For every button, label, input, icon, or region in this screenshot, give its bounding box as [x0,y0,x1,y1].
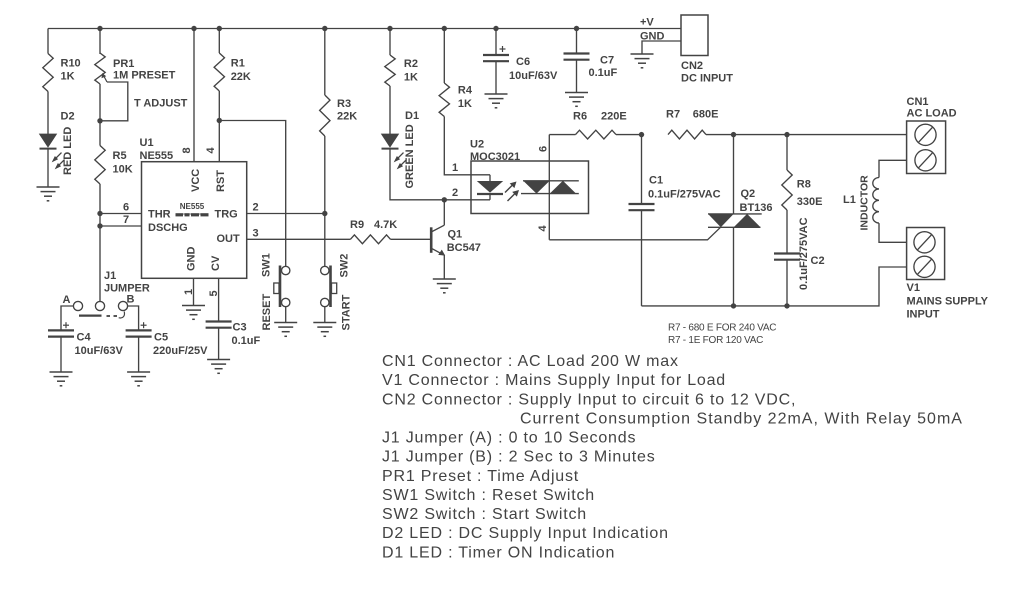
switch SW2 actuator [331,266,337,308]
ground below Q1 [433,279,456,293]
svg-text:C2: C2 [811,255,825,267]
switch SW1 actuator [274,266,280,308]
jumper J1 pin A [73,301,82,310]
junction rail-pin8 [191,26,196,31]
svg-text:R7: R7 [666,109,680,121]
svg-text:CN1: CN1 [907,96,929,108]
svg-text:CV: CV [210,255,222,271]
wire SW1 to ground [285,307,287,323]
svg-text:R3: R3 [337,98,351,110]
preset PR1 wiper arm [100,73,128,121]
svg-text:CN2 Connector : Supply Input t: CN2 Connector : Supply Input to circuit … [382,391,796,408]
wire +V top rail [48,28,681,30]
svg-text:D1: D1 [405,110,419,122]
svg-text:680E: 680E [693,109,719,121]
wire rail to PR1 [99,29,101,55]
wire J1 A to C4 [61,306,73,330]
svg-text:R4: R4 [458,85,473,97]
svg-text:DC INPUT: DC INPUT [681,73,733,85]
svg-text:4: 4 [205,147,217,154]
svg-text:U2: U2 [470,139,484,151]
svg-text:22K: 22K [337,111,357,123]
svg-text:U1: U1 [140,137,154,149]
wire D1 to pin2 node [390,150,444,200]
resistor R3 [320,95,330,136]
wire TRG pin2 [247,213,325,215]
wire node to Q2 [733,135,735,214]
svg-text:3: 3 [253,227,259,239]
svg-text:330E: 330E [797,196,823,208]
svg-text:NE555: NE555 [180,202,205,211]
wire R5 to J1 jumper [99,184,101,301]
svg-text:NE555: NE555 [140,150,174,162]
svg-text:R7 - 1E FOR 120 VAC: R7 - 1E FOR 120 VAC [668,335,763,346]
junction Q2-bottom rail [731,303,736,308]
junction rail-PR1 [97,26,102,31]
ground below SW2 [313,323,336,337]
wire rail to R4 [443,29,445,84]
svg-text:0.1uF: 0.1uF [232,335,261,347]
svg-text:VCC: VCC [190,169,202,192]
wire pin2 node to MOC pin2 [444,199,490,201]
svg-text:1: 1 [183,289,195,295]
jumper J1 hook at B [119,312,125,319]
svg-text:C3: C3 [233,322,247,334]
svg-text:5: 5 [208,290,220,296]
terminal CN1-2 screw slot [919,153,933,168]
svg-text:220E: 220E [601,111,627,123]
resistor R9 [350,235,390,244]
wire C1 to bottom rail [641,210,643,306]
svg-text:T ADJUST: T ADJUST [134,98,188,110]
terminal V1-2 [914,256,935,277]
ground below CN2 [631,54,654,68]
inductor L1 coil [873,178,879,224]
svg-text:0.1uF: 0.1uF [589,67,618,79]
svg-text:10K: 10K [113,164,133,176]
wire pin4 node to RST pin4 [218,121,220,162]
wire R9 to Q1 base [391,238,432,240]
terminal CN1-1 screw slot [919,127,933,142]
wire THR pin6 [100,213,142,215]
jumper J1 shunt A-center [79,315,102,317]
svg-text:RESET: RESET [261,294,273,331]
connector CN2 body [681,15,708,56]
ground below C6 [485,94,508,108]
svg-text:C7: C7 [600,55,614,67]
transistor Q1 BC547 [431,225,445,255]
svg-text:+V: +V [640,17,654,29]
junction rail-R4 [442,26,447,31]
svg-text:2: 2 [452,187,458,199]
svg-text:22K: 22K [231,71,251,83]
svg-text:CN2: CN2 [681,60,703,72]
wire C7 to ground [576,60,578,93]
switch SW2 contact bottom [321,298,329,306]
wire rail to R2 [389,29,391,56]
LED D1 [382,134,407,169]
svg-text:R2: R2 [404,58,418,70]
wire rail to VCC pin8 [193,29,195,162]
svg-text:C6: C6 [516,56,530,68]
capacitor C7 [564,54,590,60]
resistor R4 [439,83,449,117]
capacitor C4 [48,330,74,336]
svg-text:R9: R9 [350,219,364,231]
preset PR1 [95,53,105,84]
wire SW2 to ground [324,307,326,323]
wire rail to R3 [324,29,326,96]
resistor R2 [385,55,395,86]
junction rail-R2 [387,26,392,31]
wire C5 to ground [138,337,140,372]
svg-text:D2: D2 [61,111,75,123]
junction R7-Q2 [731,132,736,137]
wire rail to C7 [576,29,578,54]
switch SW2 contact top [321,266,329,274]
svg-text:THR: THR [148,209,171,221]
svg-text:D1 LED : Timer ON Indication: D1 LED : Timer ON Indication [382,544,615,561]
svg-text:C5: C5 [154,332,168,344]
svg-text:DSCHG: DSCHG [148,222,188,234]
wire J1 B to C5 [128,306,139,330]
svg-text:R6: R6 [573,111,587,123]
svg-text:1K: 1K [458,98,472,110]
junction THR node [97,211,102,216]
wire rail to R1 [218,29,220,54]
plus sign C6 [500,46,506,52]
svg-text:0.1uF/275VAC: 0.1uF/275VAC [798,217,810,290]
triac Q2 BT136 [708,214,762,227]
svg-text:1M PRESET: 1M PRESET [113,70,176,82]
junction rail-C6 [493,26,498,31]
opto light arrows inside U2 [505,182,519,202]
switch SW1 contact bottom [282,298,290,306]
LED D2 [40,134,65,169]
jumper J1 dashes [107,315,118,317]
svg-text:MAINS SUPPLY: MAINS SUPPLY [907,296,989,308]
svg-text:1K: 1K [61,71,75,83]
junction C2-bottom rail [784,303,789,308]
wire R2 to D1 [389,86,391,134]
svg-text:10uF/63V: 10uF/63V [509,70,558,82]
svg-text:C4: C4 [77,332,92,344]
svg-text:J1: J1 [104,270,116,282]
svg-text:6: 6 [123,202,129,214]
resistor R5 [95,146,105,185]
svg-text:PR1 Preset : Time Adjust: PR1 Preset : Time Adjust [382,468,579,485]
resistor R10 [43,54,53,92]
svg-text:R1: R1 [231,58,245,70]
wire node to R8 [786,135,788,170]
photo-triac inside U2 [521,181,579,194]
wire C3 to ground [218,328,220,360]
wire L1 to V1-1 [879,223,907,242]
svg-text:TRG: TRG [215,209,238,221]
connector V1 body [907,228,945,280]
wire CV pin5 to C3 [218,278,220,321]
wire Q2 to bottom rail [733,227,735,306]
svg-text:SW1 Switch : Reset Switch: SW1 Switch : Reset Switch [382,487,595,504]
svg-text:Q1: Q1 [448,229,463,241]
svg-text:C1: C1 [649,175,663,187]
wire CN1-2 to L1 [879,160,907,177]
svg-text:RED LED: RED LED [62,127,74,175]
wire CN2 GND pin [642,41,681,54]
terminal CN1-2 [915,150,936,171]
wire R1 to pin4 node [218,91,220,121]
switch SW1 contact top [282,266,290,274]
svg-text:GND: GND [186,247,198,272]
junction Q2-R8 [784,132,789,137]
junction wiper-R5 [97,118,102,123]
resistor R8 [782,170,792,210]
junction rail-R3 [322,26,327,31]
svg-text:R5: R5 [113,150,127,162]
wire C4 to ground [60,337,62,372]
svg-text:INPUT: INPUT [907,309,940,321]
svg-text:Q2: Q2 [741,188,756,200]
wire R8 to C2 [786,210,788,254]
svg-text:D2 LED : DC Supply Input Indic: D2 LED : DC Supply Input Indication [382,525,669,542]
wire pin6 to R6 [549,134,575,136]
ground below pin1 [182,306,205,320]
svg-text:MOC3021: MOC3021 [470,151,520,163]
ground below SW1 [274,323,297,337]
svg-text:R10: R10 [61,58,81,70]
svg-text:INDUCTOR: INDUCTOR [859,175,871,231]
svg-text:4.7K: 4.7K [374,219,397,231]
junction TRG-R3-SW2 [322,211,327,216]
ground below C3 [207,360,230,374]
svg-text:BT136: BT136 [740,202,773,214]
svg-text:6: 6 [538,146,550,152]
svg-text:SW1: SW1 [261,253,273,277]
svg-text:7: 7 [123,214,129,226]
svg-text:220uF/25V: 220uF/25V [153,345,208,357]
plus sign C5 [141,322,147,328]
junction R1-pin4-SW1 [217,118,222,123]
terminal V1-1 screw slot [918,235,932,250]
ground below C5 [127,372,150,386]
svg-text:SW2: SW2 [339,254,351,278]
capacitor C2 [774,254,800,260]
wire Q1 emitter to ground [443,255,445,279]
svg-text:10uF/63V: 10uF/63V [75,345,124,357]
capacitor C6 [483,55,509,61]
wire rail to C6 [495,29,497,56]
svg-text:OUT: OUT [217,233,241,245]
junction R6-R7-C1 [639,132,644,137]
svg-text:1: 1 [452,162,458,174]
wire R10 to D2 [47,92,49,135]
ground below C7 [565,93,588,107]
capacitor C1 [629,204,655,210]
wire C6 to ground [495,61,497,94]
wire OUT pin3 to R9 [247,238,351,240]
svg-text:GREEN LED: GREEN LED [404,124,416,188]
wire U2 pin6 through triac to pin4 [548,135,550,240]
op-amp U1 NE555 body [142,162,247,279]
svg-text:PR1: PR1 [113,58,134,70]
wire DSCHG pin7 [100,225,142,227]
opto-coupler U2 MOC3021 body [471,161,589,214]
svg-text:AC LOAD: AC LOAD [907,108,957,120]
wire pin4 node to SW1 [219,121,285,267]
wire rail to R10 [47,29,49,54]
svg-text:4: 4 [537,225,549,232]
terminal V1-2 screw slot [918,259,932,274]
svg-text:2: 2 [253,202,259,214]
jumper J1 pin B [118,301,127,310]
svg-text:BC547: BC547 [447,242,481,254]
svg-text:1K: 1K [404,72,418,84]
ground below C4 [50,372,73,386]
jumper J1 pin center [95,301,104,310]
svg-text:A: A [63,294,71,306]
svg-text:V1: V1 [907,282,920,294]
wire R7 to CN1 [706,134,907,136]
svg-text:START: START [341,294,353,330]
wire C2 to bottom rail [786,260,788,306]
LED inside U2 [477,175,503,200]
junction rail-R1 [217,26,222,31]
terminal CN1-1 [915,124,936,145]
svg-text:R7 - 680 E FOR 240 VAC: R7 - 680 E FOR 240 VAC [668,323,776,334]
connector CN1 body [907,121,946,174]
svg-text:V1 Connector : Mains Supply In: V1 Connector : Mains Supply Input for Lo… [382,372,726,389]
svg-text:RST: RST [215,170,227,192]
resistor R1 [214,53,224,91]
wire node to C1 [641,135,643,204]
wire R3 to SW2 [324,136,326,266]
svg-text:CN1 Connector : AC Load 200 W: CN1 Connector : AC Load 200 W max [382,353,679,370]
svg-text:8: 8 [181,147,193,153]
junction rail-C7 [574,26,579,31]
junction DSCHG node [97,223,102,228]
wire R4 to MOC pin1 [444,117,490,175]
wire PR1 to R5 [99,84,101,146]
resistor R6 [576,130,617,139]
junction D1-Q1-pin2 [442,197,447,202]
svg-text:J1 Jumper (B) : 2 Sec to 3 Min: J1 Jumper (B) : 2 Sec to 3 Minutes [382,449,656,466]
terminal V1-1 [914,232,935,253]
svg-text:R8: R8 [797,179,811,191]
logo mark inside chip [176,213,209,216]
svg-text:SW2 Switch : Start Switch: SW2 Switch : Start Switch [382,506,587,523]
resistor R7 [668,130,706,139]
wire bottom rail [642,267,907,306]
svg-text:J1 Jumper (A) : 0 to 10 Second: J1 Jumper (A) : 0 to 10 Seconds [382,430,636,447]
svg-text:0.1uF/275VAC: 0.1uF/275VAC [648,189,721,201]
wire U2 pin4 to Q2 gate [549,227,720,240]
ground below D2 [37,187,60,201]
svg-text:L1: L1 [843,194,856,206]
capacitor C3 [206,322,232,328]
wire R6 to C1 node [616,134,642,136]
wire D2 to ground [47,150,49,188]
wire GND pin1 to ground [193,278,195,305]
svg-text:Current Consumption Standby 22: Current Consumption Standby 22mA, With R… [520,410,963,427]
plus sign C4 [63,322,69,328]
capacitor C5 [126,330,152,336]
wire Q1 collector [443,200,445,225]
